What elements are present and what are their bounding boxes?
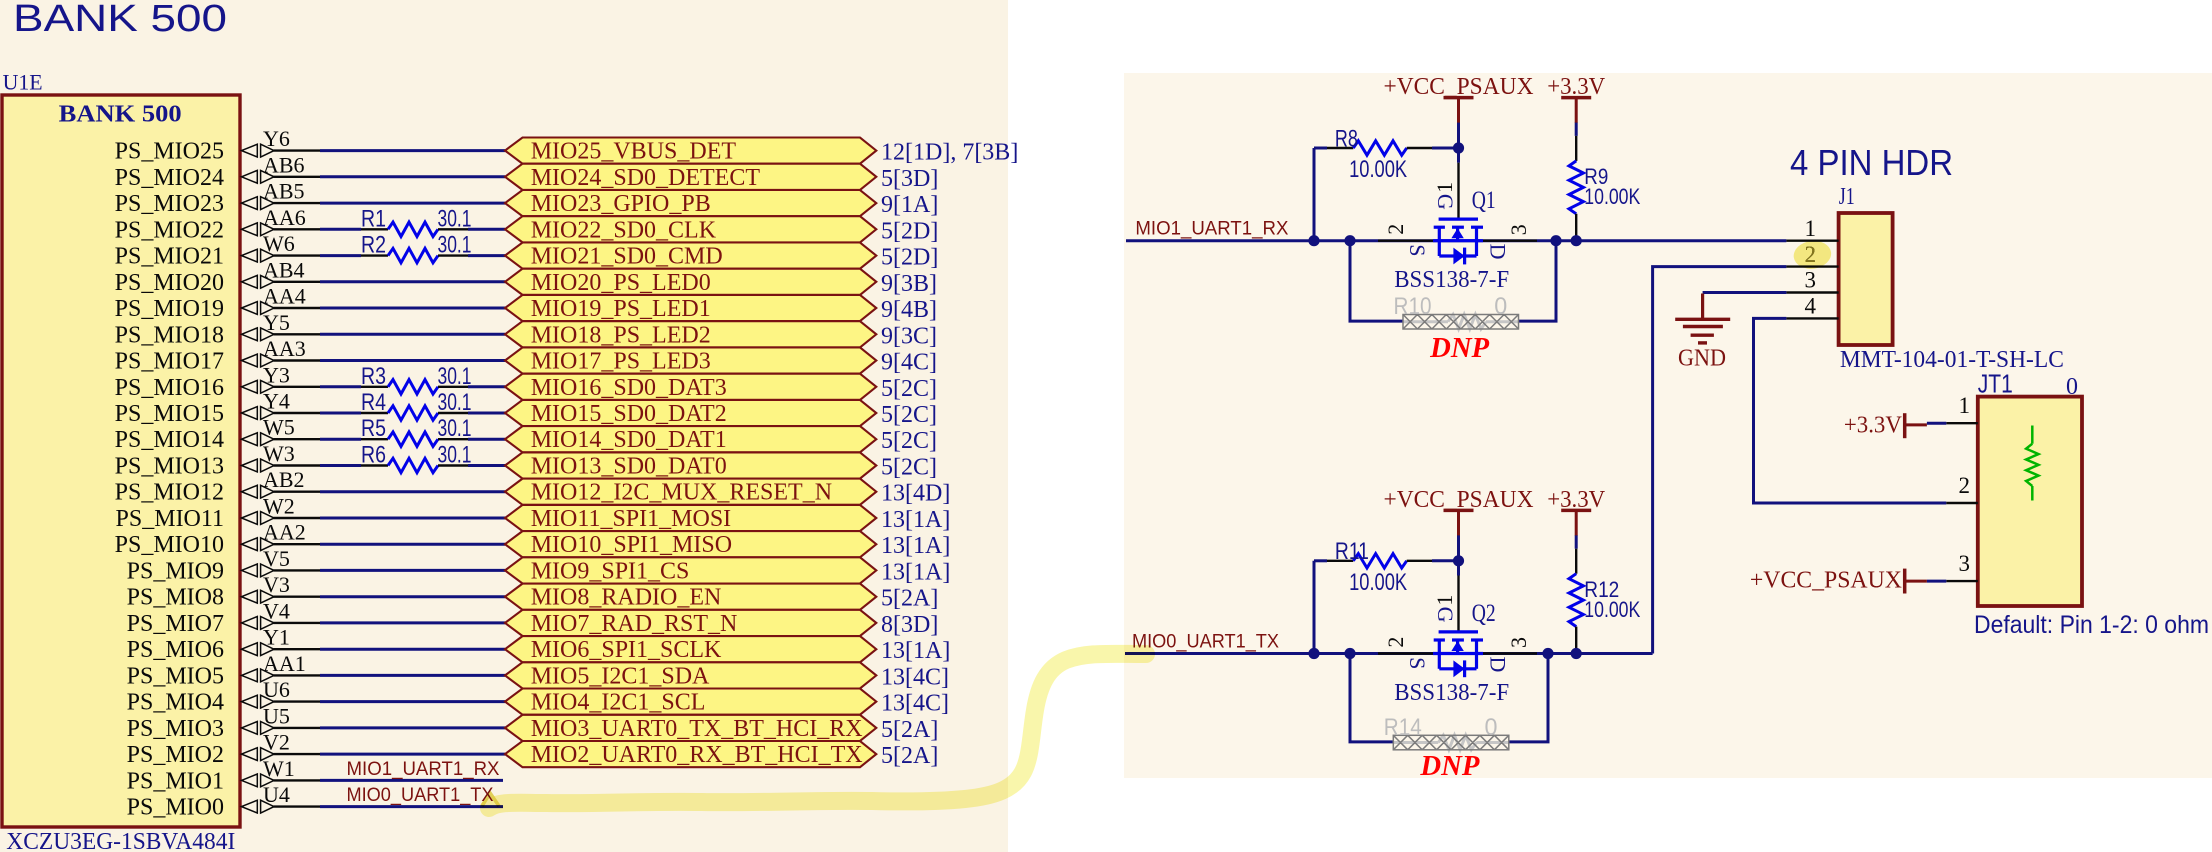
wire to port: [320, 490, 505, 493]
svg-text:5[2C]: 5[2C]: [881, 402, 937, 428]
svg-text:PS_MIO2: PS_MIO2: [127, 742, 224, 768]
svg-text:30.1: 30.1: [438, 232, 472, 259]
pin PS_MIO2 (pad V2): [127, 730, 320, 769]
wire to port: [468, 464, 505, 467]
svg-text:13[4C]: 13[4C]: [881, 691, 949, 717]
svg-text:U6: U6: [263, 677, 290, 702]
svg-text:G: G: [1433, 194, 1458, 210]
wire to port: [468, 438, 505, 441]
pin PS_MIO20 (pad AB4): [115, 257, 320, 296]
svg-text:BANK 500: BANK 500: [13, 0, 227, 40]
port MIO18_PS_LED2: [505, 321, 876, 348]
port MIO25_VBUS_DET: [505, 138, 876, 165]
svg-text:13[4D]: 13[4D]: [881, 481, 950, 507]
svg-text:U5: U5: [263, 703, 290, 728]
svg-text:AA3: AA3: [263, 336, 306, 361]
wire to port: [320, 359, 505, 362]
svg-text:3: 3: [1506, 224, 1531, 235]
svg-text:PS_MIO3: PS_MIO3: [127, 716, 224, 742]
pin PS_MIO22 (pad AA6): [115, 205, 320, 244]
svg-text:GND: GND: [1678, 346, 1726, 372]
pin PS_MIO19 (pad AA4): [115, 284, 320, 323]
junction: [1550, 235, 1561, 246]
svg-text:12[1D], 7[3B]: 12[1D], 7[3B]: [881, 140, 1018, 166]
svg-text:Q2: Q2: [1472, 600, 1496, 627]
svg-text:BANK 500: BANK 500: [59, 102, 182, 128]
svg-text:5[2C]: 5[2C]: [881, 376, 937, 402]
svg-text:5[3D]: 5[3D]: [881, 166, 938, 192]
svg-text:W2: W2: [263, 494, 295, 519]
wire MIO15 pin side: [320, 412, 361, 415]
svg-text:2: 2: [1383, 224, 1408, 235]
pin PS_MIO17 (pad AA3): [115, 336, 320, 375]
svg-text:30.1: 30.1: [438, 205, 472, 232]
svg-text:PS_MIO14: PS_MIO14: [115, 427, 224, 453]
junction: [1571, 235, 1582, 246]
svg-text:R3: R3: [361, 363, 386, 390]
pin PS_MIO18 (pad Y5): [115, 310, 320, 349]
annotation highlight on J1 pin 2: [1792, 238, 1833, 271]
svg-text:DNP: DNP: [1429, 333, 1490, 364]
svg-text:MIO10_SPI1_MISO: MIO10_SPI1_MISO: [531, 532, 732, 558]
svg-text:8[3D]: 8[3D]: [881, 612, 938, 638]
wire to port: [468, 254, 505, 257]
wire to port: [320, 307, 505, 310]
svg-text:30.1: 30.1: [438, 389, 472, 416]
pin PS_MIO0 (pad U4): [127, 782, 320, 821]
svg-text:PS_MIO25: PS_MIO25: [115, 139, 224, 165]
wire to port: [468, 385, 505, 388]
wire to port: [320, 543, 505, 546]
port MIO13_SD0_DAT0: [505, 452, 876, 479]
junction: [1571, 648, 1582, 659]
svg-text:PS_MIO11: PS_MIO11: [116, 506, 224, 532]
svg-text:9[3C]: 9[3C]: [881, 323, 937, 349]
svg-text:AB6: AB6: [263, 152, 305, 177]
svg-text:Y5: Y5: [263, 310, 290, 335]
svg-text:V4: V4: [263, 598, 290, 623]
svg-text:PS_MIO15: PS_MIO15: [115, 401, 224, 427]
junction: [1308, 235, 1319, 246]
svg-text:PS_MIO7: PS_MIO7: [127, 611, 224, 637]
svg-text:4: 4: [1805, 294, 1817, 319]
svg-text:MIO5_I2C1_SDA: MIO5_I2C1_SDA: [531, 663, 710, 689]
transistor Q2 BSS138-7-F: [1383, 595, 1531, 706]
junction: [1453, 555, 1464, 566]
svg-text:PS_MIO21: PS_MIO21: [115, 244, 224, 270]
svg-text:+3.3V: +3.3V: [1547, 487, 1606, 513]
pin PS_MIO3 (pad U5): [127, 703, 320, 742]
power +3.3V at Q1: [1547, 74, 1606, 123]
svg-text:R10: R10: [1394, 293, 1432, 320]
power +3.3V at Q2: [1547, 487, 1606, 536]
svg-text:13[1A]: 13[1A]: [881, 638, 950, 664]
svg-text:MIO13_SD0_DAT0: MIO13_SD0_DAT0: [531, 454, 727, 480]
annotation highlighter swoosh: [482, 654, 1146, 808]
svg-text:MIO1_UART1_RX: MIO1_UART1_RX: [1135, 219, 1288, 240]
svg-text:5[2A]: 5[2A]: [881, 717, 938, 743]
svg-text:MIO8_RADIO_EN: MIO8_RADIO_EN: [531, 585, 722, 611]
svg-text:4 PIN HDR: 4 PIN HDR: [1790, 142, 1953, 183]
svg-text:Q1: Q1: [1472, 187, 1496, 214]
svg-text:V5: V5: [263, 546, 290, 571]
svg-text:U1E: U1E: [3, 70, 43, 95]
svg-text:W3: W3: [263, 441, 295, 466]
svg-text:MIO11_SPI1_MOSI: MIO11_SPI1_MOSI: [531, 506, 731, 532]
svg-text:PS_MIO13: PS_MIO13: [115, 454, 224, 480]
wire to port: [320, 333, 505, 336]
svg-text:+VCC_PSAUX: +VCC_PSAUX: [1384, 487, 1534, 513]
source pin Q2: [1378, 652, 1433, 654]
svg-text:R14: R14: [1384, 714, 1422, 741]
svg-text:JT1: JT1: [1978, 369, 2013, 399]
drain pin Q1: [1483, 239, 1537, 241]
svg-text:13[1A]: 13[1A]: [881, 533, 950, 559]
power +VCC_PSAUX at Q2: [1384, 487, 1534, 536]
wire gate pull-up column Q1: [1457, 123, 1460, 148]
svg-text:W5: W5: [263, 415, 295, 440]
port MIO16_SD0_DAT3: [505, 374, 876, 401]
port MIO5_I2C1_SDA: [505, 662, 876, 689]
pin PS_MIO25 (pad Y6): [115, 126, 320, 165]
pin PS_MIO21 (pad W6): [115, 231, 320, 270]
svg-text:MIO0_UART1_TX: MIO0_UART1_TX: [347, 785, 494, 806]
svg-text:R8: R8: [1335, 125, 1358, 152]
wire to port: [320, 700, 505, 703]
svg-text:S: S: [1405, 657, 1430, 669]
svg-text:MIO4_I2C1_SCL: MIO4_I2C1_SCL: [531, 690, 706, 716]
source pin Q1: [1378, 239, 1433, 241]
svg-text:MIO18_PS_LED2: MIO18_PS_LED2: [531, 322, 711, 348]
port MIO22_SD0_CLK: [505, 216, 876, 243]
svg-text:9[1A]: 9[1A]: [881, 192, 938, 218]
wire gate pull-up column Q2: [1457, 535, 1460, 560]
pin PS_MIO8 (pad V3): [127, 572, 320, 611]
port MIO14_SD0_DAT1: [505, 426, 876, 453]
wire to port: [320, 726, 505, 729]
svg-text:13[1A]: 13[1A]: [881, 507, 950, 533]
resistor R4 30.1: [361, 389, 472, 420]
svg-text:5[2C]: 5[2C]: [881, 428, 937, 454]
port MIO4_I2C1_SCL: [505, 689, 876, 716]
pin PS_MIO6 (pad Y1): [127, 625, 320, 664]
svg-text:AB2: AB2: [263, 467, 305, 492]
pin PS_MIO14 (pad W5): [115, 415, 320, 454]
svg-text:3: 3: [1805, 268, 1817, 293]
pin PS_MIO24 (pad AB6): [115, 152, 320, 191]
power +VCC_PSAUX at JT1: [1750, 568, 1946, 594]
svg-text:MIO22_SD0_CLK: MIO22_SD0_CLK: [531, 217, 717, 243]
pin PS_MIO13 (pad W3): [115, 441, 320, 480]
resistor R14 0 (DNP): [1384, 714, 1509, 750]
pin PS_MIO1 (pad W1): [127, 756, 320, 795]
svg-text:PS_MIO5: PS_MIO5: [127, 663, 224, 689]
svg-text:DNP: DNP: [1419, 751, 1480, 782]
svg-text:2: 2: [1383, 637, 1408, 648]
pin 1 J1: [1786, 216, 1838, 241]
svg-text:AB5: AB5: [263, 179, 305, 204]
svg-text:R6: R6: [361, 442, 386, 469]
pin PS_MIO23 (pad AB5): [115, 179, 320, 218]
svg-text:V3: V3: [263, 572, 290, 597]
svg-text:MIO21_SD0_CMD: MIO21_SD0_CMD: [531, 244, 723, 270]
svg-text:0: 0: [1485, 714, 1498, 741]
power +3.3V at JT1: [1844, 413, 1946, 439]
svg-text:1: 1: [1432, 595, 1457, 606]
pin PS_MIO12 (pad AB2): [115, 467, 320, 506]
svg-text:+VCC_PSAUX: +VCC_PSAUX: [1384, 74, 1534, 100]
pin 4 J1: [1786, 294, 1838, 319]
wire R8 left leg: [1313, 148, 1316, 241]
pin PS_MIO16 (pad Y3): [115, 362, 320, 401]
pin 2 J1: [1786, 242, 1838, 267]
svg-text:2: 2: [1805, 242, 1817, 267]
svg-text:PS_MIO9: PS_MIO9: [127, 558, 224, 584]
pin PS_MIO4 (pad U6): [127, 677, 320, 716]
junction: [1542, 648, 1553, 659]
wire J1 pin3 to GND: [1703, 291, 1787, 294]
svg-text:MIO6_SPI1_SCLK: MIO6_SPI1_SCLK: [531, 637, 722, 663]
port MIO7_RAD_RST_N: [505, 610, 876, 637]
resistor R12 10.00K: [1569, 535, 1641, 653]
svg-text:MIO1_UART1_RX: MIO1_UART1_RX: [347, 759, 500, 780]
svg-text:5[2D]: 5[2D]: [881, 218, 938, 244]
svg-text:R2: R2: [361, 232, 386, 259]
wire to port: [320, 753, 505, 756]
resistor R10 0 (DNP): [1394, 293, 1519, 329]
wire MIO13 pin side: [320, 464, 361, 467]
svg-text:9[4C]: 9[4C]: [881, 350, 937, 376]
pin PS_MIO7 (pad V4): [127, 598, 320, 637]
svg-text:J1: J1: [1839, 184, 1855, 210]
svg-text:MIO7_RAD_RST_N: MIO7_RAD_RST_N: [531, 611, 738, 637]
junction: [1308, 648, 1319, 659]
pin PS_MIO9 (pad V5): [127, 546, 320, 585]
svg-text:10.00K: 10.00K: [1584, 597, 1640, 622]
pin PS_MIO15 (pad Y4): [115, 389, 320, 428]
port MIO8_RADIO_EN: [505, 584, 876, 611]
svg-text:PS_MIO16: PS_MIO16: [115, 375, 224, 401]
connector J1 body: [1839, 213, 1893, 345]
wire MIO1_UART1_RX to J1 pin1: [1126, 239, 1786, 242]
port MIO23_GPIO_PB: [505, 190, 876, 217]
resistor element inside JT1: [2026, 426, 2038, 501]
port MIO9_SPI1_CS: [505, 557, 876, 584]
wire MIO14 pin side: [320, 438, 361, 441]
transistor Q1 BSS138-7-F: [1383, 182, 1531, 293]
wire to port: [468, 412, 505, 415]
power +VCC_PSAUX at Q1: [1384, 74, 1534, 123]
svg-text:5[2C]: 5[2C]: [881, 455, 937, 481]
svg-text:PS_MIO0: PS_MIO0: [127, 795, 224, 821]
drain pin Q2: [1483, 652, 1537, 654]
svg-text:R1: R1: [361, 205, 386, 232]
pin 1 JT1: [1946, 393, 1978, 423]
svg-text:MIO16_SD0_DAT3: MIO16_SD0_DAT3: [531, 375, 727, 401]
svg-text:Y3: Y3: [263, 362, 290, 387]
svg-text:MIO2_UART0_RX_BT_HCI_TX: MIO2_UART0_RX_BT_HCI_TX: [531, 742, 863, 768]
wire net MIO1_UART1_RX (left): [320, 779, 503, 782]
svg-text:BSS138-7-F: BSS138-7-F: [1394, 680, 1509, 706]
wire to port: [320, 280, 505, 283]
svg-text:PS_MIO4: PS_MIO4: [127, 690, 224, 716]
wire to port: [320, 569, 505, 572]
resistor R8 10.00K: [1314, 125, 1459, 183]
port MIO2_UART0_RX_BT_HCI_TX: [505, 741, 876, 768]
svg-text:S: S: [1405, 244, 1430, 256]
wire R11 left leg: [1313, 561, 1316, 654]
wire J1 pin4 to JT1 pin2: [1754, 318, 1947, 503]
wire MIO16 pin side: [320, 385, 361, 388]
svg-text:1: 1: [1432, 182, 1457, 193]
port MIO3_UART0_TX_BT_HCI_RX: [505, 715, 876, 742]
gate pin Q1: [1457, 163, 1459, 219]
wire DNP bypass loop: [1350, 241, 1556, 321]
svg-text:AA4: AA4: [263, 284, 306, 309]
svg-text:R4: R4: [361, 389, 386, 416]
wire to port: [320, 202, 505, 205]
wire to port: [468, 228, 505, 231]
svg-text:W1: W1: [263, 756, 295, 781]
svg-text:MIO20_PS_LED0: MIO20_PS_LED0: [531, 270, 711, 296]
svg-text:30.1: 30.1: [438, 415, 472, 442]
pin 3 J1: [1786, 268, 1838, 293]
svg-text:AA6: AA6: [263, 205, 306, 230]
svg-text:R5: R5: [361, 415, 386, 442]
wire to port: [320, 517, 505, 520]
svg-text:PS_MIO17: PS_MIO17: [115, 349, 224, 375]
svg-text:Y4: Y4: [263, 389, 290, 414]
svg-text:MIO17_PS_LED3: MIO17_PS_LED3: [531, 349, 711, 375]
svg-text:G: G: [1433, 607, 1458, 623]
gate pin Q2: [1457, 576, 1459, 632]
svg-text:PS_MIO22: PS_MIO22: [115, 217, 224, 243]
resistor R11 10.00K: [1314, 538, 1459, 596]
resistor R5 30.1: [361, 415, 472, 446]
svg-text:Y6: Y6: [263, 126, 290, 151]
svg-text:MIO23_GPIO_PB: MIO23_GPIO_PB: [531, 191, 711, 217]
svg-text:10.00K: 10.00K: [1349, 156, 1407, 183]
port MIO24_SD0_DETECT: [505, 164, 876, 191]
svg-text:AA1: AA1: [263, 651, 306, 676]
svg-text:XCZU3EG-1SBVA484I: XCZU3EG-1SBVA484I: [6, 829, 235, 852]
svg-text:5[2A]: 5[2A]: [881, 743, 938, 769]
port MIO11_SPI1_MOSI: [505, 505, 876, 532]
port MIO17_PS_LED3: [505, 347, 876, 374]
resistor R9 10.00K: [1569, 123, 1641, 241]
wire to port: [320, 674, 505, 677]
pin 2 JT1: [1946, 473, 1978, 503]
wire net MIO0_UART1_TX (left): [320, 805, 503, 808]
svg-text:PS_MIO18: PS_MIO18: [115, 322, 224, 348]
svg-text:MIO15_SD0_DAT2: MIO15_SD0_DAT2: [531, 401, 727, 427]
junction: [1453, 142, 1464, 153]
svg-text:Y1: Y1: [263, 625, 290, 650]
svg-text:9[4B]: 9[4B]: [881, 297, 937, 323]
port MIO19_PS_LED1: [505, 295, 876, 322]
svg-text:U4: U4: [263, 782, 290, 807]
svg-text:5[2D]: 5[2D]: [881, 245, 938, 271]
svg-text:MMT-104-01-T-SH-LC: MMT-104-01-T-SH-LC: [1840, 347, 2064, 373]
svg-text:AA2: AA2: [263, 520, 306, 545]
svg-text:V2: V2: [263, 730, 290, 755]
svg-text:13[1A]: 13[1A]: [881, 559, 950, 585]
resistor R2 30.1: [361, 232, 472, 263]
svg-text:BSS138-7-F: BSS138-7-F: [1394, 267, 1509, 293]
svg-text:MIO0_UART1_TX: MIO0_UART1_TX: [1132, 632, 1279, 653]
resistor R1 30.1: [361, 205, 472, 236]
svg-text:0: 0: [1494, 293, 1507, 320]
svg-text:30.1: 30.1: [438, 442, 472, 469]
svg-text:R11: R11: [1335, 538, 1369, 565]
svg-text:MIO24_SD0_DETECT: MIO24_SD0_DETECT: [531, 165, 761, 191]
svg-text:W6: W6: [263, 231, 295, 256]
pin PS_MIO11 (pad W2): [116, 494, 320, 533]
svg-text:PS_MIO24: PS_MIO24: [115, 165, 224, 191]
svg-text:+3.3V: +3.3V: [1844, 413, 1903, 439]
svg-text:10.00K: 10.00K: [1584, 184, 1640, 209]
wire to port: [320, 621, 505, 624]
pin 3 JT1: [1946, 551, 1978, 581]
wire to port: [320, 175, 505, 178]
port MIO21_SD0_CMD: [505, 243, 876, 270]
pin PS_MIO10 (pad AA2): [115, 520, 320, 559]
svg-text:3: 3: [1959, 551, 1971, 576]
port MIO12_I2C_MUX_RESET_N: [505, 479, 876, 506]
svg-text:+VCC_PSAUX: +VCC_PSAUX: [1750, 568, 1902, 594]
junction: [1344, 235, 1355, 246]
wire to port: [320, 648, 505, 651]
svg-text:MIO25_VBUS_DET: MIO25_VBUS_DET: [531, 139, 737, 165]
svg-text:PS_MIO8: PS_MIO8: [127, 585, 224, 611]
svg-text:PS_MIO12: PS_MIO12: [115, 480, 224, 506]
svg-text:10.00K: 10.00K: [1349, 569, 1407, 596]
svg-text:MIO19_PS_LED1: MIO19_PS_LED1: [531, 296, 711, 322]
svg-text:D: D: [1485, 656, 1510, 672]
svg-text:AB4: AB4: [263, 257, 305, 282]
wire MIO21 pin side: [320, 254, 361, 257]
svg-text:3: 3: [1506, 637, 1531, 648]
resistor R3 30.1: [361, 363, 472, 394]
wire to port: [320, 595, 505, 598]
svg-text:+3.3V: +3.3V: [1547, 74, 1606, 100]
pin PS_MIO5 (pad AA1): [127, 651, 320, 690]
junction: [1344, 648, 1355, 659]
svg-text:MIO14_SD0_DAT1: MIO14_SD0_DAT1: [531, 427, 727, 453]
svg-text:2: 2: [1959, 473, 1971, 498]
port MIO15_SD0_DAT2: [505, 400, 876, 427]
svg-text:PS_MIO6: PS_MIO6: [127, 637, 224, 663]
svg-text:PS_MIO10: PS_MIO10: [115, 532, 224, 558]
svg-text:MIO9_SPI1_CS: MIO9_SPI1_CS: [531, 558, 690, 584]
port MIO20_PS_LED0: [505, 269, 876, 296]
svg-text:PS_MIO23: PS_MIO23: [115, 191, 224, 217]
wire DNP bypass loop: [1350, 654, 1548, 742]
svg-text:13[4C]: 13[4C]: [881, 664, 949, 690]
svg-text:30.1: 30.1: [438, 363, 472, 390]
wire MIO0_UART1_TX: [1125, 652, 1653, 655]
svg-text:Default: Pin 1-2: 0 ohm: Default: Pin 1-2: 0 ohm: [1974, 611, 2209, 639]
svg-text:9[3B]: 9[3B]: [881, 271, 937, 297]
svg-text:PS_MIO1: PS_MIO1: [127, 768, 224, 794]
svg-text:PS_MIO20: PS_MIO20: [115, 270, 224, 296]
port MIO6_SPI1_SCLK: [505, 636, 876, 663]
wire Q2 drain to J1 pin2: [1653, 267, 1787, 654]
svg-text:PS_MIO19: PS_MIO19: [115, 296, 224, 322]
svg-text:1: 1: [1959, 393, 1971, 418]
svg-text:5[2A]: 5[2A]: [881, 586, 938, 612]
resistor R6 30.1: [361, 442, 472, 473]
